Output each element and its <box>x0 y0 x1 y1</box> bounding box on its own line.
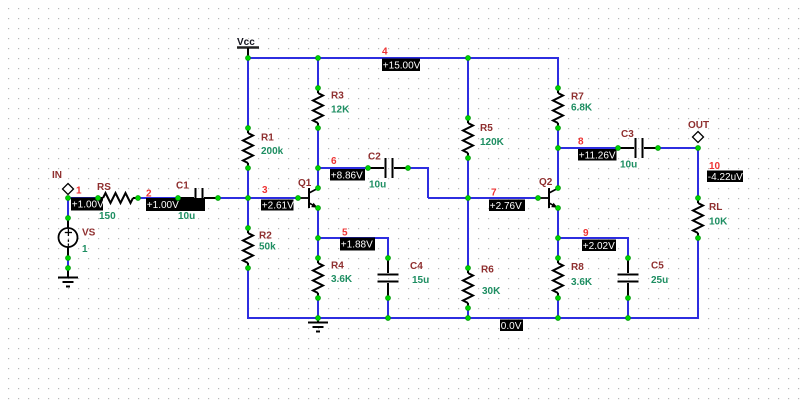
svg-text:R1: R1 <box>261 133 274 144</box>
svg-text:RS: RS <box>97 182 111 193</box>
svg-text:4: 4 <box>382 47 388 58</box>
svg-text:VS: VS <box>82 228 96 239</box>
svg-text:+15.00V: +15.00V <box>383 60 421 71</box>
svg-text:25u: 25u <box>651 275 668 286</box>
svg-text:10u: 10u <box>369 180 386 191</box>
svg-text:C1: C1 <box>176 181 189 192</box>
svg-text:-4.22uV: -4.22uV <box>708 172 743 183</box>
svg-text:+11.26V: +11.26V <box>579 150 616 161</box>
svg-text:C5: C5 <box>651 261 664 272</box>
svg-text:R3: R3 <box>331 91 344 102</box>
svg-text:3.6K: 3.6K <box>571 277 593 288</box>
svg-text:C3: C3 <box>621 129 634 140</box>
svg-text:10u: 10u <box>620 160 637 171</box>
svg-text:0.0V: 0.0V <box>501 321 522 332</box>
svg-text:10u: 10u <box>178 211 195 222</box>
svg-text:+2.61V: +2.61V <box>262 201 294 212</box>
svg-text:Q1: Q1 <box>298 178 312 189</box>
svg-text:50k: 50k <box>259 242 276 253</box>
svg-text:9: 9 <box>583 228 589 239</box>
svg-text:6.8K: 6.8K <box>571 103 593 114</box>
svg-text:6: 6 <box>331 156 337 167</box>
svg-text:+1.88V: +1.88V <box>341 240 373 251</box>
svg-text:+1.00V: +1.00V <box>72 200 104 211</box>
svg-text:10: 10 <box>709 161 721 172</box>
svg-text:8: 8 <box>578 137 584 148</box>
svg-text:3.6K: 3.6K <box>331 274 353 285</box>
svg-text:2: 2 <box>146 189 152 200</box>
svg-text:R6: R6 <box>481 265 494 276</box>
svg-text:120K: 120K <box>480 137 505 148</box>
svg-text:IN: IN <box>52 170 62 181</box>
svg-text:R4: R4 <box>331 261 344 272</box>
svg-text:RL: RL <box>709 202 722 213</box>
svg-text:R5: R5 <box>480 123 493 134</box>
svg-text:5: 5 <box>342 228 348 239</box>
svg-text:7: 7 <box>491 188 497 199</box>
svg-text:15u: 15u <box>412 275 429 286</box>
svg-text:R2: R2 <box>259 231 272 242</box>
svg-text:30K: 30K <box>482 286 501 297</box>
svg-text:150: 150 <box>99 211 116 222</box>
svg-text:C2: C2 <box>368 152 381 163</box>
svg-text:1: 1 <box>76 186 82 197</box>
svg-text:R8: R8 <box>571 262 584 273</box>
svg-text:12K: 12K <box>331 105 350 116</box>
svg-text:Q2: Q2 <box>539 177 553 188</box>
svg-text:R7: R7 <box>571 92 584 103</box>
svg-text:C4: C4 <box>410 261 423 272</box>
svg-text:+2.76V: +2.76V <box>490 201 522 212</box>
svg-text:3: 3 <box>262 185 268 196</box>
svg-text:OUT: OUT <box>688 120 709 131</box>
svg-text:1: 1 <box>82 244 88 255</box>
svg-text:+1.00V: +1.00V <box>147 200 179 211</box>
svg-text:+2.02V: +2.02V <box>583 241 615 252</box>
svg-text:10K: 10K <box>709 217 728 228</box>
svg-text:+8.86V: +8.86V <box>331 170 363 181</box>
svg-text:Vcc: Vcc <box>237 37 255 48</box>
svg-text:200k: 200k <box>261 146 284 157</box>
